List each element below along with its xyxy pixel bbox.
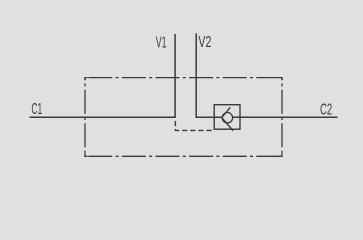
label V1 <box>156 35 167 52</box>
pilot line (dashed) from C1 to check valve <box>175 118 214 130</box>
svg-text:C1: C1 <box>31 101 42 118</box>
svg-text:V2: V2 <box>198 34 211 51</box>
wire: V2 line with elbow right into check valve <box>196 33 222 117</box>
label C2 <box>320 102 332 119</box>
label C1 <box>31 101 42 118</box>
valve body enclosure (dash-dot boundary) <box>85 78 282 157</box>
check valve CV1 ball <box>222 113 232 123</box>
svg-text:C2: C2 <box>320 102 332 119</box>
check valve CV1 body (square) <box>214 105 240 130</box>
label V2 <box>198 34 211 51</box>
wire: port C1 line with elbow up to V1 line <box>30 34 176 117</box>
check valve CV1 seat (V) <box>222 107 234 130</box>
svg-text:V1: V1 <box>156 35 167 52</box>
wire: port C2 line from check valve outlet <box>233 116 338 118</box>
